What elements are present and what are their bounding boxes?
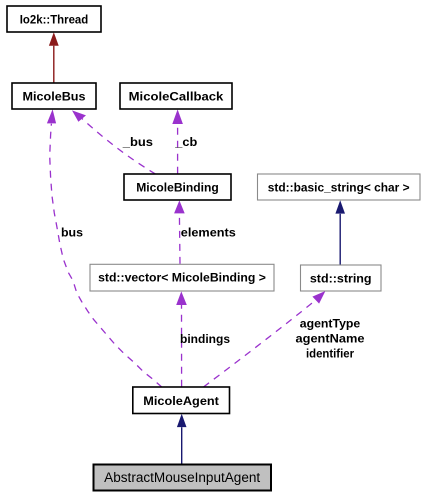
node std::vector< MicoleBinding >	[90, 264, 274, 291]
wire: private inheritance edge MicoleBus -> Io2k::Thread	[49, 32, 59, 83]
svg-text:MicoleCallback: MicoleCallback	[129, 90, 224, 104]
svg-text:agentName: agentName	[296, 332, 365, 346]
svg-text:std::string: std::string	[310, 272, 372, 286]
svg-text:MicoleAgent: MicoleAgent	[143, 394, 219, 408]
svg-text:_cb: _cb	[174, 135, 197, 149]
svg-text:Io2k::Thread: Io2k::Thread	[20, 13, 89, 27]
svg-text:agentType: agentType	[300, 317, 361, 331]
svg-text:_bus: _bus	[122, 135, 154, 149]
svg-text:identifier: identifier	[306, 347, 354, 361]
wire: public inheritance edge std::string -> std::basic_string	[335, 200, 345, 264]
svg-text:MicoleBinding: MicoleBinding	[136, 181, 219, 195]
wire: usage edge MicoleBinding -> MicoleBus, label _bus	[72, 110, 156, 174]
node MicoleBus	[12, 83, 96, 109]
node std::string	[301, 265, 382, 291]
wire: usage edge MicoleBinding -> MicoleCallback, label _cb	[172, 109, 197, 173]
wire: usage edge MicoleAgent -> std::string, labels agentType agentName identifier	[204, 291, 365, 387]
svg-text:AbstractMouseInputAgent: AbstractMouseInputAgent	[104, 470, 260, 485]
wire: usage edge MicoleAgent -> MicoleBus, label bus	[47, 109, 162, 387]
svg-text:std::basic_string< char >: std::basic_string< char >	[268, 181, 410, 195]
wire: usage edge std::vector -> MicoleBinding, label elements	[174, 200, 236, 264]
node std::basic_string< char >	[258, 174, 421, 200]
wire: usage edge MicoleAgent -> std::vector, label bindings	[176, 291, 230, 386]
node MicoleBinding	[124, 174, 231, 200]
svg-text:bindings: bindings	[180, 332, 230, 346]
node Io2k::Thread	[7, 6, 101, 32]
node AbstractMouseInputAgent (main node, grey)	[94, 465, 272, 491]
svg-text:bus: bus	[61, 226, 83, 240]
wire: public inheritance edge AbstractMouseInputAgent -> MicoleAgent	[177, 414, 187, 465]
node MicoleCallback	[120, 83, 232, 109]
svg-text:MicoleBus: MicoleBus	[23, 90, 86, 104]
node MicoleAgent	[133, 387, 230, 414]
svg-text:std::vector< MicoleBinding >: std::vector< MicoleBinding >	[98, 271, 266, 285]
svg-text:elements: elements	[181, 226, 236, 240]
